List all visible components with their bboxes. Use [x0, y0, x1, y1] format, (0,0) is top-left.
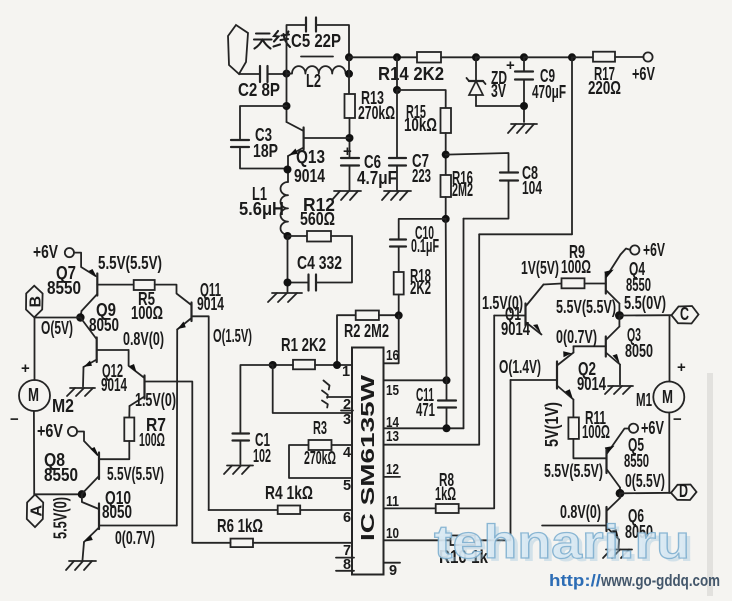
svg-text:104: 104: [522, 178, 542, 198]
pin 9 stub: [384, 562, 400, 564]
wire Q6 emitter to ground: [618, 540, 621, 549]
ground below C1: [224, 466, 253, 475]
svg-text:11: 11: [386, 494, 399, 510]
svg-text:5.5V(5.5V): 5.5V(5.5V): [107, 464, 164, 484]
svg-text:100Ω: 100Ω: [561, 257, 591, 277]
svg-text:8550: 8550: [47, 278, 81, 298]
svg-text:5.5V(0): 5.5V(0): [51, 497, 71, 539]
wire antenna to C2: [239, 73, 259, 75]
svg-text:O(1.4V): O(1.4V): [499, 357, 541, 377]
transistor Q3: [574, 325, 654, 365]
wire C5 loop right: [316, 25, 349, 57]
transistor Q5: [605, 435, 649, 488]
wire pin11 through R8 to Q1 base riser: [384, 507, 436, 509]
wire Q10 emitter to ground: [83, 542, 85, 560]
svg-text:0(0.7V): 0(0.7V): [115, 528, 155, 548]
pin 2 trimmer chevrons: [322, 381, 330, 408]
wire C10 to R18: [398, 247, 400, 273]
wire R15 to R16 node: [445, 133, 447, 175]
svg-text:B: B: [28, 296, 45, 308]
capacitor C1: [233, 432, 250, 434]
node R1 left: [269, 361, 277, 369]
resistor R18: [394, 272, 404, 295]
svg-text:10kΩ: 10kΩ: [404, 115, 437, 135]
svg-text:2M2: 2M2: [452, 180, 473, 200]
transistor Q6: [542, 498, 653, 542]
wire pin7 through R6: [253, 542, 352, 544]
svg-text:470μF: 470μF: [532, 82, 566, 102]
svg-text:3V: 3V: [491, 81, 506, 101]
svg-text:http://: http://: [549, 572, 601, 590]
svg-text:1.5V(0): 1.5V(0): [135, 390, 176, 410]
wire C2 to node: [268, 73, 288, 75]
motor M2: [19, 380, 50, 411]
terminal +6V left mid: [68, 427, 77, 436]
wire x572 vertical to pin13 line: [571, 57, 573, 234]
svg-text:R2 2M2: R2 2M2: [344, 321, 389, 341]
node at C2/L2/C5: [283, 70, 291, 78]
wire node left to C10: [399, 219, 446, 240]
capacitor C7: [389, 151, 431, 190]
svg-text:223: 223: [412, 166, 431, 186]
transistor Q10: [82, 488, 177, 542]
ground below C4: [268, 293, 302, 302]
wire C3 bottom loop: [240, 147, 288, 169]
svg-text:220Ω: 220Ω: [588, 78, 621, 98]
wire to R12: [288, 235, 308, 237]
svg-text:1.5V(0): 1.5V(0): [482, 293, 523, 313]
pin 2 wire: [327, 396, 352, 398]
capacitor C6 electrolytic: [341, 143, 397, 190]
node C3 bottom junction: [284, 166, 292, 174]
pin 13 wire: [384, 234, 480, 444]
svg-text:10: 10: [386, 526, 399, 542]
wire R1 left: [273, 364, 293, 366]
svg-text:C2 8P: C2 8P: [238, 80, 280, 100]
node C4 left: [284, 279, 292, 287]
svg-text:9014: 9014: [501, 319, 530, 339]
svg-text:16: 16: [386, 348, 399, 364]
svg-text:+6V: +6V: [641, 418, 664, 438]
wire R2 right to R18 node: [379, 314, 399, 316]
wire R1 right to pin1: [315, 364, 352, 366]
transistor Q8: [44, 447, 99, 494]
wire C8 bottom to pin14 riser: [464, 181, 509, 219]
resistor R6: [231, 539, 254, 548]
node Q13 collector: [346, 134, 354, 142]
hexagon D connector: [671, 485, 697, 501]
svg-text:8550: 8550: [626, 275, 651, 295]
transistor Q4: [604, 255, 651, 304]
svg-text:8050: 8050: [89, 315, 119, 335]
node Q8/Q10 collectors: [78, 490, 86, 498]
svg-text:O(1.5V): O(1.5V): [213, 326, 252, 346]
svg-text:A: A: [29, 505, 46, 517]
wire ZD node to C9 node: [476, 56, 524, 58]
wire C9 node to x572 node: [524, 56, 572, 58]
zener ZD: [467, 57, 508, 106]
resistor R2: [356, 311, 379, 321]
svg-text:+: +: [677, 359, 686, 376]
node C3 top junction: [283, 102, 291, 110]
wire Q6 collector to node D: [619, 493, 621, 498]
ground below Q3: [605, 386, 633, 394]
wire R18 to R2 node: [398, 295, 400, 316]
resistor R11: [568, 417, 579, 439]
motor M1: [653, 382, 684, 413]
wire Q13 emitter down: [287, 156, 289, 182]
svg-text:−: −: [673, 411, 682, 428]
svg-text:C: C: [680, 304, 689, 324]
svg-text:9: 9: [389, 563, 397, 579]
svg-text:www.go-gddq.com: www.go-gddq.com: [600, 572, 720, 590]
wire R11 to Q5 base: [573, 439, 606, 458]
svg-text:C5 22P: C5 22P: [291, 31, 341, 51]
svg-text:1kΩ: 1kΩ: [435, 484, 456, 504]
resistor R16: [441, 175, 452, 197]
transistor Q9: [80, 300, 128, 367]
svg-text:102: 102: [253, 446, 271, 466]
wire L1 node down to ground: [287, 236, 289, 292]
svg-text:L2: L2: [306, 71, 321, 91]
IC SM6135W body: [352, 348, 384, 575]
hexagon B connector: [26, 286, 43, 318]
capacitor C10: [390, 223, 439, 256]
wire node down to C3 junction: [286, 74, 288, 122]
hexagon A connector: [27, 495, 43, 528]
resistor R3: [309, 440, 332, 450]
wire Q12 to R7: [128, 406, 130, 418]
L2 core bar: [301, 56, 333, 58]
resistor R1: [293, 360, 315, 370]
svg-text:R3: R3: [313, 418, 327, 438]
transistor Q12: [101, 350, 192, 543]
resistor R8: [436, 504, 459, 513]
svg-text:18P: 18P: [253, 141, 278, 161]
svg-text:270kΩ: 270kΩ: [304, 448, 336, 468]
pin 15 wire: [384, 379, 448, 381]
wire Q11 emitter down: [176, 330, 178, 526]
ground below C6: [332, 191, 361, 200]
wire Q4 emitter to +6V: [621, 249, 631, 255]
svg-text:0(5.5V): 0(5.5V): [625, 471, 665, 491]
svg-text:tehnari.ru: tehnari.ru: [434, 515, 690, 568]
wire Q3 collector up to node: [618, 316, 620, 327]
svg-text:−: −: [10, 411, 19, 428]
svg-text:0(0.7V): 0(0.7V): [556, 327, 597, 347]
antenna label 天线: [254, 31, 290, 49]
svg-text:R14 2K2: R14 2K2: [378, 64, 444, 84]
svg-text:1V(5V): 1V(5V): [521, 258, 559, 278]
wire ZD to C9 bottom: [476, 105, 524, 107]
capacitor C8: [500, 163, 542, 198]
wire Q3 emitter to ground: [619, 365, 621, 385]
svg-text:+6V: +6V: [632, 64, 655, 84]
wire M2 bottom to Q8 node: [34, 493, 82, 495]
svg-text:+6V: +6V: [37, 421, 63, 441]
wire node to hexagon D: [620, 492, 671, 495]
wire node to C8 top: [446, 153, 509, 173]
node R2/R18/pin16: [395, 311, 403, 319]
inductor L1: [281, 182, 289, 235]
svg-text:4: 4: [343, 445, 351, 461]
resistor R15: [441, 108, 452, 133]
svg-text:8050: 8050: [625, 341, 653, 361]
wire R14 to ZD node: [441, 56, 476, 58]
wire node to hexagon line: [35, 317, 81, 319]
wire R1 node down to pin3: [273, 365, 352, 413]
wire motor M2 bottom: [33, 411, 35, 494]
wire node to R17: [572, 56, 593, 58]
svg-text:3: 3: [343, 412, 351, 428]
svg-text:+: +: [21, 360, 30, 377]
svg-text:8050: 8050: [102, 502, 132, 522]
svg-text:8550: 8550: [624, 451, 649, 471]
svg-text:1: 1: [342, 364, 350, 380]
wire node to hexagon C: [619, 314, 671, 316]
svg-text:O(5V): O(5V): [41, 318, 73, 338]
svg-text:+6V: +6V: [33, 242, 58, 262]
resistor R12: [307, 231, 331, 242]
capacitor C2: [259, 66, 261, 82]
svg-text:R4 1kΩ: R4 1kΩ: [265, 483, 313, 503]
wire Q2 emitter to R11: [572, 400, 574, 418]
svg-text:5.5V(5.5V): 5.5V(5.5V): [544, 461, 603, 481]
svg-text:8550: 8550: [44, 465, 78, 485]
ground below C9: [508, 124, 537, 133]
node R15/R16/C8: [442, 151, 450, 159]
pin 14 wire: [384, 427, 464, 429]
svg-text:D: D: [679, 481, 688, 501]
resistor R9: [562, 278, 585, 288]
resistor R17: [593, 52, 615, 62]
svg-text:0.1μF: 0.1μF: [411, 236, 439, 256]
wire pin14 riser to C8 line: [463, 219, 465, 429]
terminal +6V right top: [630, 245, 639, 254]
svg-text:15: 15: [386, 383, 399, 399]
svg-text:5V(1V): 5V(1V): [542, 402, 562, 447]
node bus at x572: [568, 53, 576, 61]
wire Q3 base riser to Q2 collector: [573, 346, 575, 352]
svg-text:5: 5: [343, 478, 351, 494]
svg-text:9014: 9014: [294, 166, 325, 186]
wire C4 left to node: [288, 282, 309, 284]
svg-text:100Ω: 100Ω: [582, 422, 610, 442]
resistor R10: [451, 536, 476, 546]
node pin1/R2: [333, 361, 341, 369]
watermark tehnari.ru: [434, 515, 694, 571]
svg-text:R1 2K2: R1 2K2: [281, 335, 326, 355]
svg-text:13: 13: [386, 429, 399, 445]
wire R16 bottom to node: [445, 197, 447, 219]
wire pin13 riser top to +6V drop: [479, 233, 572, 235]
wire Q4 collector to node: [618, 304, 620, 316]
node L2 right: [345, 70, 353, 78]
ground below Q6: [603, 550, 632, 559]
resistor R7: [124, 418, 134, 442]
scan edge shading right: [707, 373, 713, 596]
svg-text:5.5(0V): 5.5(0V): [624, 293, 666, 313]
top +6V bus: [349, 56, 417, 58]
svg-text:M: M: [28, 385, 39, 405]
wire node to R15: [397, 90, 446, 108]
transistor Q11: [177, 280, 224, 510]
antenna symbol: [228, 25, 248, 74]
svg-text:560Ω: 560Ω: [300, 209, 335, 229]
svg-text:M1: M1: [636, 390, 652, 410]
resistor R5: [134, 280, 155, 290]
capacitor C5: [305, 18, 307, 32]
wire C3 top loop: [240, 106, 287, 140]
wire R5 to Q11 collector: [155, 285, 192, 305]
wire node to C7: [396, 90, 398, 158]
wire Q7 collector to node: [80, 311, 81, 318]
transistor Q2: [511, 351, 607, 399]
wire Q1 collector to R9: [544, 284, 562, 285]
transistor Q7: [47, 263, 134, 311]
capacitor C11: [438, 399, 456, 401]
hexagon C connector: [672, 306, 699, 324]
transistor Q13: [287, 122, 350, 186]
terminal +6V top right: [643, 52, 652, 61]
inductor L2: [287, 66, 350, 74]
capacitor C4: [307, 275, 309, 291]
svg-text:5.5V(5.5V): 5.5V(5.5V): [556, 297, 616, 317]
node bus at x397: [393, 53, 401, 61]
wire pin10 through R10 to Q2 base riser: [384, 539, 451, 541]
svg-text:2K2: 2K2: [410, 278, 431, 298]
wire C1 to ground: [239, 441, 241, 465]
svg-text:9014: 9014: [577, 374, 606, 394]
node x397 R15 branch: [393, 86, 401, 94]
svg-text:6: 6: [343, 510, 351, 526]
svg-text:C4 332: C4 332: [297, 253, 342, 273]
svg-text:5.5V(5.5V): 5.5V(5.5V): [98, 253, 162, 273]
svg-text:IC SM6135W: IC SM6135W: [358, 375, 378, 541]
capacitor C3: [231, 139, 249, 141]
node bus at ZD: [472, 53, 480, 61]
wire +6V to Q7 emitter: [74, 253, 96, 276]
terminal +6V right mid: [629, 424, 638, 433]
wire R1 node to C1: [240, 365, 272, 434]
wire bus x397 down: [396, 57, 398, 90]
wire R13 to C6: [349, 118, 351, 158]
node output D: [616, 489, 625, 498]
wire R12 right loop: [317, 236, 352, 283]
resistor R4: [278, 506, 301, 515]
ground below Q9: [67, 388, 95, 396]
node output C: [615, 311, 624, 320]
wire R9 to Q4 base: [585, 283, 606, 285]
node R16 bottom / C10: [442, 215, 450, 223]
svg-text:4.7μF: 4.7μF: [357, 168, 397, 188]
capacitor C9 electrolytic: [506, 57, 566, 122]
node L1 bottom / R12: [284, 232, 292, 240]
wire R3 left loop to pin5: [289, 445, 352, 478]
svg-text:471: 471: [416, 400, 435, 420]
wire C5 loop left: [287, 25, 306, 74]
wire Q9 emitter to ground: [82, 367, 85, 387]
wire hexagon C down to motor M1: [669, 315, 671, 381]
svg-text:100Ω: 100Ω: [139, 430, 165, 450]
wire pin6 through R4: [300, 509, 352, 511]
node motor M2 top: [76, 313, 84, 321]
svg-text:+: +: [506, 57, 515, 74]
wire motor M1 bottom: [668, 413, 670, 494]
wire +6V to Q8 emitter: [77, 432, 98, 456]
svg-text:9014: 9014: [197, 294, 224, 314]
node C11 top: [443, 376, 451, 384]
svg-text:0.8V(0): 0.8V(0): [123, 329, 164, 349]
svg-text:5.6μH: 5.6μH: [239, 199, 284, 219]
ground below Q10: [66, 561, 96, 570]
node top bus left: [345, 53, 353, 61]
terminal +6V left top: [65, 248, 74, 257]
node C9 bottom: [520, 102, 528, 110]
wire R16 node down to C11 top: [445, 219, 448, 380]
svg-text:M: M: [662, 387, 673, 407]
resistor R14: [417, 52, 441, 63]
resistor R13: [345, 94, 356, 118]
wire down to motor M2: [34, 318, 36, 381]
svg-text:M2: M2: [52, 396, 74, 416]
node bus at C9: [520, 53, 528, 61]
wire +6V to Q5 emitter: [607, 429, 629, 454]
wire R2 left to pin1 node: [337, 315, 356, 365]
wire L2 node to R13: [348, 57, 350, 94]
svg-text:9014: 9014: [101, 375, 127, 395]
node C11 bottom: [443, 424, 451, 432]
svg-text:+6V: +6V: [643, 240, 665, 260]
wire R3 right to pin4: [332, 444, 353, 446]
svg-text:+: +: [343, 143, 352, 160]
wire pin16: [384, 315, 399, 363]
svg-text:R6 1kΩ: R6 1kΩ: [217, 516, 263, 536]
wire R7 bottom to Q8 base: [99, 441, 129, 459]
svg-text:100Ω: 100Ω: [131, 303, 163, 323]
ground below C7: [382, 191, 411, 200]
transistor Q1: [494, 285, 543, 340]
svg-text:12: 12: [386, 462, 399, 478]
svg-text:Q13: Q13: [296, 147, 325, 167]
svg-text:270kΩ: 270kΩ: [358, 103, 395, 123]
wire R17 to +6V terminal: [615, 56, 644, 58]
wire Q5 collector to node D: [619, 488, 621, 494]
